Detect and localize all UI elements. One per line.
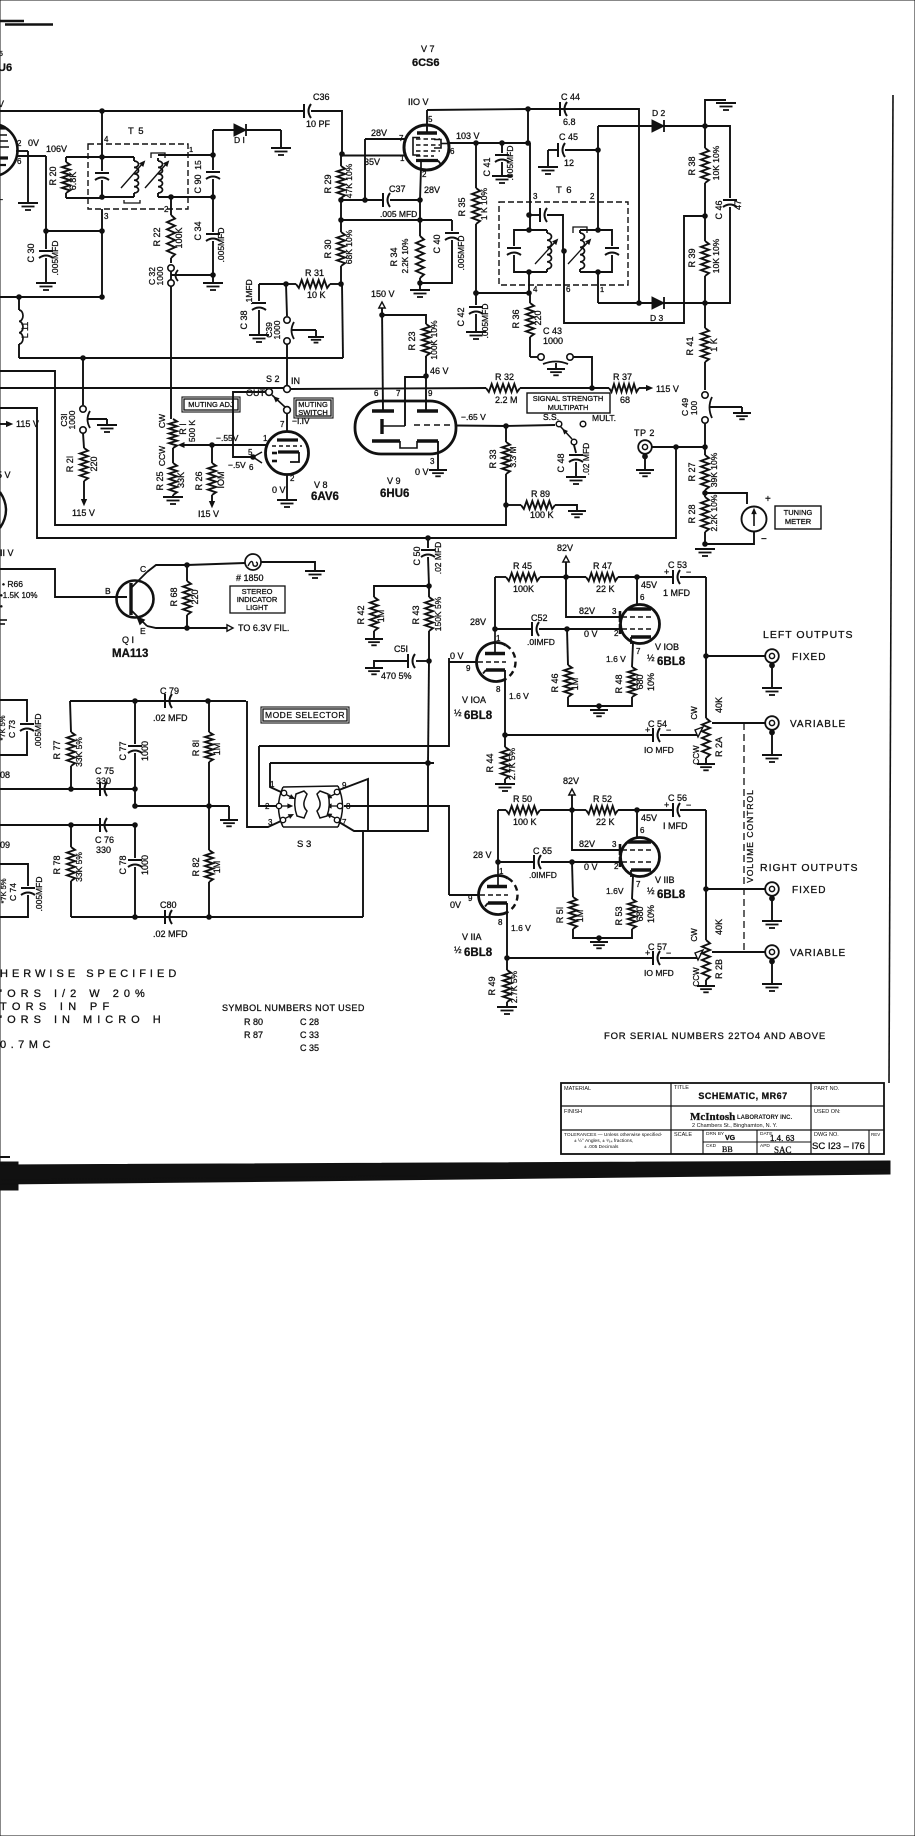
- svg-text:1000: 1000: [140, 855, 150, 875]
- svg-text:C 53: C 53: [668, 560, 687, 570]
- ground: [762, 730, 782, 762]
- wire y220: [341, 218, 452, 223]
- capacitor C52 .01MFD: [495, 613, 569, 647]
- ground: [365, 668, 383, 674]
- svg-text:C 90: C 90: [193, 174, 203, 193]
- svg-text:+: +: [645, 948, 650, 958]
- svg-text:+: +: [645, 725, 650, 735]
- svg-text:D 2: D 2: [652, 108, 666, 118]
- ground: [762, 959, 782, 991]
- node 82V left: [557, 543, 573, 579]
- svg-text:C80: C80: [160, 900, 177, 910]
- svg-text:+: +: [664, 800, 669, 810]
- svg-text:C 38: C 38: [239, 310, 249, 329]
- svg-text:6CS6: 6CS6: [412, 57, 440, 69]
- ground: [365, 639, 383, 645]
- ground: [36, 283, 56, 290]
- wire pin7 V10B: [606, 643, 641, 667]
- resistor R22 100K: [152, 197, 184, 263]
- wire: [339, 761, 430, 831]
- capacitor C79 .02MFD: [153, 686, 188, 723]
- wire: [339, 200, 344, 222]
- svg-text:68: 68: [620, 395, 630, 405]
- ground: [568, 511, 586, 517]
- svg-text:5: 5: [248, 448, 253, 457]
- wire: [290, 388, 486, 389]
- svg-text:McIntosh: McIntosh: [690, 1111, 735, 1123]
- capacitor C30 .005MFD: [26, 231, 60, 283]
- svg-text:CCW: CCW: [692, 745, 701, 765]
- jack right fixed: [706, 882, 826, 901]
- box signal strength multipath: [527, 393, 610, 413]
- svg-text:V IIA: V IIA: [462, 932, 482, 942]
- svg-text:470 5%: 470 5%: [381, 671, 412, 681]
- svg-text:.005MFD: .005MFD: [216, 228, 226, 263]
- svg-text:82V: 82V: [579, 839, 595, 849]
- svg-text:I15 V: I15 V: [198, 509, 219, 519]
- capacitor C40 .005MFD: [420, 220, 466, 283]
- svg-text:R 47: R 47: [593, 561, 612, 571]
- wire 95V line: [0, 109, 304, 114]
- wire: [170, 286, 172, 419]
- svg-text:100K 10%: 100K 10%: [429, 320, 439, 360]
- ground: [590, 938, 608, 948]
- wire: [291, 330, 316, 337]
- wire: [548, 150, 558, 167]
- box muting switch: [294, 398, 333, 418]
- ground: [271, 130, 291, 155]
- svg-text:R 33: R 33: [488, 449, 498, 468]
- svg-text:VARIABLE: VARIABLE: [790, 948, 846, 959]
- svg-text:C 41: C 41: [482, 157, 492, 176]
- svg-text:3: 3: [430, 457, 435, 466]
- svg-text:R 48: R 48: [614, 674, 624, 693]
- ground: [762, 663, 782, 695]
- svg-text:9: 9: [466, 664, 471, 673]
- svg-text:0 V: 0 V: [584, 629, 598, 639]
- wire: [390, 198, 422, 203]
- svg-text:VG: VG: [725, 1135, 736, 1142]
- svg-text:R 28: R 28: [687, 504, 697, 523]
- svg-text:39K 10%: 39K 10%: [709, 452, 719, 487]
- svg-text:3: 3: [612, 840, 617, 849]
- svg-text:6HU6: 6HU6: [380, 488, 409, 500]
- svg-text:0 V: 0 V: [584, 862, 598, 872]
- wire: [101, 231, 103, 297]
- svg-text:100 K: 100 K: [530, 510, 554, 520]
- switch S2: [246, 388, 285, 407]
- wire sheet border: [889, 95, 893, 1083]
- texts R66: [0, 579, 38, 624]
- resistor R49 2.7K 5%: [487, 958, 519, 1007]
- capacitor C45 12: [558, 132, 578, 168]
- svg-text:C 54: C 54: [648, 719, 667, 729]
- wire: [247, 701, 281, 827]
- svg-text:C 79: C 79: [160, 686, 179, 696]
- svg-text:C: C: [140, 564, 146, 574]
- wire: [426, 661, 431, 765]
- svg-text:IN: IN: [291, 376, 300, 386]
- svg-text:0 V: 0 V: [272, 485, 286, 495]
- resistor R68 220: [169, 565, 200, 630]
- svg-text:REV: REV: [871, 1132, 880, 1137]
- svg-text:C 75: C 75: [95, 766, 114, 776]
- svg-text:S.S.: S.S.: [543, 412, 559, 422]
- svg-text:½: ½: [647, 653, 655, 663]
- svg-text:• R66: • R66: [2, 579, 23, 589]
- wire: [212, 130, 214, 155]
- svg-text:RIGHT OUTPUTS: RIGHT OUTPUTS: [760, 862, 859, 874]
- svg-text:0.7MC: 0.7MC: [0, 1039, 55, 1051]
- ground: [97, 425, 117, 432]
- svg-text:C 73: C 73: [7, 720, 17, 738]
- capacitor C90 15: [193, 155, 220, 197]
- svg-text:4: 4: [533, 285, 538, 294]
- tube V11B 6BL8: [620, 838, 686, 902]
- capacitor C42 .005MFD: [456, 293, 490, 338]
- svg-text:R 80: R 80: [244, 1017, 263, 1027]
- wire pin5 V7: [408, 97, 429, 133]
- ground: [538, 167, 558, 174]
- svg-text:T 6: T 6: [556, 185, 573, 196]
- resistor R27 39K 10%: [687, 447, 719, 495]
- wire grid V9 out: [455, 412, 508, 428]
- svg-text:6: 6: [640, 826, 645, 835]
- switch S3b SS/MULT: [506, 412, 616, 445]
- text right outputs: [760, 862, 859, 874]
- svg-text:220: 220: [533, 310, 543, 325]
- svg-text:MULT.: MULT.: [592, 413, 616, 423]
- resistor R37 68: [609, 372, 639, 405]
- jack right variable: [712, 945, 846, 964]
- svg-text:1: 1: [189, 145, 193, 154]
- potentiometer R2B 40K: [690, 889, 724, 987]
- svg-text:08: 08: [0, 770, 10, 780]
- wire T6 pin4: [527, 272, 538, 295]
- wire pin7 V9: [405, 377, 426, 426]
- svg-text:C 30: C 30: [26, 243, 36, 262]
- diode D3: [650, 297, 664, 323]
- wire: [652, 445, 705, 450]
- wire: [102, 157, 134, 197]
- capacitor C80 .02MFD: [153, 900, 188, 939]
- box mode selector: [261, 707, 349, 723]
- svg-text:R 78: R 78: [52, 855, 62, 874]
- svg-text:TORS IN PF: TORS IN PF: [0, 1001, 115, 1013]
- svg-text:C 33: C 33: [300, 1030, 319, 1040]
- wire 103V: [448, 131, 530, 145]
- ground: [220, 806, 238, 826]
- svg-text:33K: 33K: [176, 472, 186, 488]
- capacitor C32 1000 (feedthrough): [147, 265, 178, 286]
- svg-text:28V: 28V: [371, 128, 387, 138]
- svg-text:8: 8: [496, 685, 501, 694]
- wire mode sel B: [344, 806, 449, 895]
- svg-text:½: ½: [454, 708, 462, 718]
- svg-text:−.65 V: −.65 V: [461, 412, 486, 422]
- wire: [100, 180, 105, 199]
- capacitor C54 10MFD: [505, 719, 703, 755]
- svg-text:V 7: V 7: [421, 44, 435, 54]
- svg-text:2.7K 5%: 2.7K 5%: [509, 970, 519, 1003]
- svg-text:FIXED: FIXED: [792, 652, 826, 663]
- svg-text:C 77: C 77: [118, 741, 128, 760]
- node to 6.3V FIL: [187, 623, 289, 633]
- svg-text:*7K 5%: *7K 5%: [0, 715, 7, 740]
- svg-text:.005MFD: .005MFD: [33, 714, 43, 749]
- resistor R50 100K: [498, 794, 572, 827]
- wire: [528, 109, 641, 305]
- svg-text:6.8: 6.8: [563, 117, 576, 127]
- wire: [598, 302, 705, 304]
- capacitor C48 .02MFD: [556, 443, 591, 477]
- tube V7 6CS6: [399, 44, 455, 179]
- capacitor C39 1000 (feedthrough): [264, 284, 294, 344]
- switch S2 contact IN: [266, 374, 300, 392]
- svg-text:7: 7: [636, 880, 641, 889]
- svg-text:5 V: 5 V: [0, 470, 11, 480]
- svg-text:1.6 V: 1.6 V: [511, 923, 531, 933]
- svg-text:D I: D I: [234, 135, 245, 145]
- svg-text:35V: 35V: [364, 157, 380, 167]
- svg-text:II V: II V: [0, 548, 14, 558]
- svg-text:330: 330: [96, 845, 111, 855]
- svg-text:S 2: S 2: [266, 374, 280, 384]
- svg-text:PART NO.: PART NO.: [814, 1086, 840, 1092]
- svg-text:CCW: CCW: [157, 446, 167, 466]
- svg-text:3: 3: [612, 607, 617, 616]
- tuning meter M1: [705, 493, 771, 545]
- svg-text:1M: 1M: [570, 678, 580, 691]
- ground: [497, 1007, 517, 1014]
- capacitor C44 6.8: [528, 92, 639, 127]
- wire T5 pin3: [100, 209, 109, 233]
- wire volume gang: [744, 723, 755, 952]
- svg-text:U6: U6: [0, 62, 12, 74]
- svg-text:TO 6.3V FIL.: TO 6.3V FIL.: [238, 623, 289, 633]
- wire: [567, 629, 620, 639]
- capacitor T6 coupling: [529, 208, 563, 251]
- svg-text:+: +: [765, 494, 771, 505]
- bottom scan bar: [0, 1157, 890, 1190]
- wire: [261, 562, 315, 571]
- capacitor C56 1MFD: [637, 793, 706, 831]
- test point TP2: [634, 428, 655, 459]
- svg-text:V IOA: V IOA: [462, 695, 486, 705]
- resistor R38 10K 10%: [687, 126, 721, 218]
- svg-text:7: 7: [636, 647, 641, 656]
- svg-text:−: −: [686, 800, 691, 810]
- svg-text:R 45: R 45: [513, 561, 532, 571]
- node 46V: [424, 356, 449, 411]
- svg-text:CW: CW: [690, 928, 699, 942]
- wire: [0, 295, 104, 300]
- resistor R33 3.3M: [488, 426, 518, 507]
- potentiometer R2A 40K: [690, 656, 724, 765]
- svg-text:L: L: [0, 192, 3, 202]
- svg-text:09: 09: [0, 840, 10, 850]
- resistor R23 100K 10%: [407, 320, 439, 360]
- svg-text:C 44: C 44: [561, 92, 580, 102]
- resistor R48 680 10%: [614, 667, 656, 697]
- svg-text:0 V: 0 V: [450, 651, 464, 661]
- ground: [762, 896, 782, 928]
- svg-text:R 43: R 43: [411, 605, 421, 624]
- svg-text:8: 8: [498, 918, 503, 927]
- ground: [492, 176, 512, 183]
- svg-text:IIO V: IIO V: [408, 97, 429, 107]
- svg-text:680: 680: [635, 906, 645, 921]
- wire: [560, 505, 577, 511]
- wire: [339, 779, 368, 831]
- svg-text:R 36: R 36: [511, 309, 521, 328]
- svg-text:47K 10%: 47K 10%: [344, 163, 354, 198]
- wire: [573, 929, 632, 940]
- ground: [249, 335, 269, 342]
- svg-text:1000: 1000: [272, 320, 282, 339]
- wire pin6 V11B: [637, 810, 645, 838]
- wire: [520, 387, 609, 389]
- svg-text:R 46: R 46: [550, 673, 560, 692]
- ground: [308, 337, 324, 343]
- wire: [147, 563, 189, 572]
- text notes: [0, 968, 180, 1051]
- svg-text:.005MFD: .005MFD: [480, 304, 490, 339]
- svg-text:SWITCH: SWITCH: [298, 408, 328, 417]
- variable capacitor T6 primary: [507, 230, 529, 272]
- capacitor C73 .005MFD: [0, 700, 43, 755]
- svg-text:6: 6: [249, 463, 254, 472]
- wire T5 pin4: [100, 111, 109, 159]
- capacitor C53 1MFD: [637, 560, 706, 598]
- ground: [695, 549, 715, 556]
- svg-text:R 2B: R 2B: [714, 959, 724, 979]
- svg-text:6BL8: 6BL8: [464, 947, 493, 959]
- box muting adj: [182, 397, 240, 412]
- svg-text:−.5V: −.5V: [228, 460, 246, 470]
- svg-text:IO MFD: IO MFD: [644, 968, 674, 978]
- svg-text:7: 7: [280, 420, 285, 429]
- svg-text:106V: 106V: [46, 144, 67, 154]
- svg-text:MULTIPATH: MULTIPATH: [548, 403, 589, 412]
- wire: [0, 823, 137, 850]
- svg-text:0V: 0V: [28, 138, 39, 148]
- svg-text:1.6 V: 1.6 V: [509, 691, 529, 701]
- capacitor C31 1000 (feedthrough): [59, 358, 90, 433]
- wire: [568, 697, 632, 708]
- svg-text:2: 2: [164, 205, 169, 214]
- wire: [470, 577, 501, 643]
- svg-text:33K 5%: 33K 5%: [74, 852, 84, 882]
- svg-text:C 45: C 45: [559, 132, 578, 142]
- svg-text:40K: 40K: [714, 919, 724, 935]
- resistor R26 10M: [194, 445, 226, 497]
- capacitor C50 .02MFD: [412, 538, 443, 588]
- ground: [18, 151, 38, 210]
- wire: [87, 419, 107, 425]
- capacitor C36: [304, 92, 331, 129]
- svg-text:+: +: [664, 567, 669, 577]
- svg-text:R 23: R 23: [407, 331, 417, 350]
- resistor R82 1M: [191, 806, 222, 917]
- svg-text:10 K: 10 K: [307, 290, 326, 300]
- svg-text:.02 MFD: .02 MFD: [153, 713, 188, 723]
- svg-text:L 11: L 11: [20, 322, 30, 339]
- svg-text:3: 3: [104, 212, 109, 221]
- text title block: [564, 1085, 880, 1155]
- svg-text:MA113: MA113: [112, 648, 148, 660]
- svg-text:R 5I: R 5I: [555, 907, 565, 924]
- box stereo indicator light: [230, 586, 285, 613]
- svg-text:C 74: C 74: [8, 883, 18, 901]
- svg-text:10K 10%: 10K 10%: [711, 238, 721, 273]
- wire: [44, 156, 49, 233]
- svg-text:1.4. 63: 1.4. 63: [770, 1134, 795, 1143]
- capacitor C74 .005MFD: [0, 864, 44, 917]
- switch muting contact: [284, 407, 310, 431]
- capacitor C55 .01MFD: [498, 846, 574, 880]
- svg-text:150K 5%: 150K 5%: [433, 596, 443, 631]
- wire: [46, 230, 102, 232]
- resistor R89 100K: [506, 489, 560, 520]
- text serial numbers: [604, 1031, 826, 1042]
- svg-text:47: 47: [733, 200, 743, 210]
- svg-text:IO MFD: IO MFD: [644, 745, 674, 755]
- ground: [277, 500, 297, 507]
- svg-text:# 1850: # 1850: [236, 573, 264, 583]
- svg-text:R 89: R 89: [531, 489, 550, 499]
- resistor R34 2.2K 10%: [389, 220, 424, 285]
- wire pin9 V11A: [449, 894, 479, 896]
- svg-text:C 42: C 42: [456, 307, 466, 326]
- svg-text:•: •: [0, 602, 3, 611]
- svg-text:R 87: R 87: [244, 1030, 263, 1040]
- svg-text:.005 MFD: .005 MFD: [380, 209, 417, 219]
- ground: [429, 470, 447, 476]
- svg-text:R 42: R 42: [356, 605, 366, 624]
- svg-text:2: 2: [17, 139, 22, 148]
- wire: [0, 770, 137, 791]
- svg-text:1.6V: 1.6V: [606, 886, 624, 896]
- svg-text:V IIB: V IIB: [655, 875, 675, 885]
- svg-text:2: 2: [614, 629, 619, 638]
- svg-text:2: 2: [422, 170, 427, 179]
- svg-text:40K: 40K: [714, 697, 724, 713]
- switch S3: [265, 780, 351, 850]
- svg-text:0 V: 0 V: [415, 467, 429, 477]
- wire pin2 V7: [420, 168, 440, 220]
- svg-text:115 V: 115 V: [16, 419, 39, 429]
- ground: [495, 784, 515, 791]
- svg-text:6: 6: [566, 285, 571, 294]
- resistor R77 33K 5%: [52, 701, 84, 789]
- svg-text:10K 10%: 10K 10%: [711, 145, 721, 180]
- wire pin6 V6: [16, 144, 67, 166]
- wire: [70, 699, 246, 704]
- svg-text:½: ½: [454, 945, 462, 955]
- svg-text:C 56: C 56: [668, 793, 687, 803]
- wire AGC bus: [0, 387, 284, 389]
- svg-text:V 8: V 8: [314, 480, 328, 490]
- diode D2: [598, 108, 707, 132]
- tube V9 6HU6: [355, 389, 456, 500]
- svg-text:BB: BB: [722, 1145, 733, 1154]
- node pin2 V6: [16, 138, 39, 151]
- svg-text:SIGNAL STRENGTH: SIGNAL STRENGTH: [533, 394, 604, 403]
- svg-text:3.3 M: 3.3 M: [508, 446, 518, 467]
- svg-text:220: 220: [89, 456, 99, 471]
- capacitor C43 1000 (feedthrough): [530, 326, 573, 369]
